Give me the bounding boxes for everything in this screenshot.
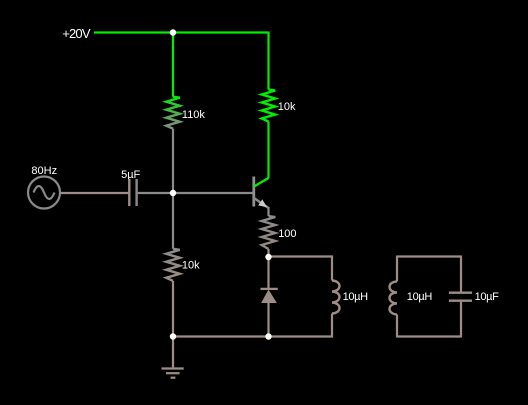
wire 110k top lead bbox=[172, 33, 174, 97]
wire cap to base bbox=[137, 192, 253, 194]
wire diode top lead bbox=[267, 257, 269, 289]
capacitor C1 left plate bbox=[128, 179, 130, 206]
node C dot ground rail bbox=[170, 333, 176, 339]
svg-text:110k: 110k bbox=[182, 109, 206, 121]
svg-text:80Hz: 80Hz bbox=[31, 165, 57, 177]
svg-text:10µH: 10µH bbox=[407, 291, 433, 303]
wire tank2 left top bbox=[396, 256, 398, 282]
wire collector branch down bbox=[267, 32, 269, 90]
wire tank2 right bottom bbox=[460, 301, 462, 338]
wire tank2 top rail bbox=[397, 255, 461, 257]
inductor L1 10uH coil bbox=[332, 281, 340, 314]
wire tank1 right top bbox=[331, 256, 333, 281]
wire top rail right bbox=[173, 31, 269, 33]
resistor R1 110k body bbox=[166, 97, 180, 129]
ground bar 2 bbox=[166, 372, 180, 374]
wire tank1 top rail bbox=[269, 255, 334, 257]
wire ground stem bbox=[172, 337, 174, 369]
ground bar 1 bbox=[162, 367, 184, 369]
svg-text:+20V: +20V bbox=[62, 26, 91, 41]
capacitor C2 top plate bbox=[449, 292, 472, 294]
capacitor C1 right plate bbox=[135, 179, 137, 206]
svg-text:10k: 10k bbox=[278, 101, 296, 113]
node B dot base bbox=[170, 190, 176, 196]
transistor Q1 emitter arrow bbox=[258, 199, 267, 207]
ac source V1 circle bbox=[28, 177, 60, 209]
svg-text:10µH: 10µH bbox=[343, 291, 369, 303]
ground bar 3 bbox=[171, 377, 176, 379]
wire diode bottom lead bbox=[267, 303, 269, 337]
ac source sine bbox=[34, 186, 55, 199]
wire 10k to collector bbox=[267, 122, 269, 179]
resistor R3 100 body bbox=[262, 216, 276, 249]
wire source to cap bbox=[61, 192, 130, 194]
wire tank1 bottom rail bbox=[269, 335, 334, 337]
transistor Q1 emitter lead bbox=[254, 198, 269, 208]
node E dot tank bottom bbox=[265, 333, 271, 339]
wire 110k bottom lead bbox=[172, 129, 174, 193]
transistor Q1 base bar bbox=[252, 177, 255, 207]
svg-text:10µF: 10µF bbox=[475, 291, 500, 303]
resistor R4 10k body bbox=[166, 249, 180, 281]
inductor L2 10uH coil bbox=[390, 281, 398, 314]
node A dot top rail bbox=[170, 29, 176, 35]
wire tank1 right bottom bbox=[331, 314, 333, 338]
svg-text:10k: 10k bbox=[182, 260, 200, 272]
svg-text:100: 100 bbox=[278, 228, 296, 240]
wire emitter down bbox=[267, 207, 269, 216]
transistor Q1 collector lead bbox=[254, 178, 269, 187]
wire 10k bias bottom lead bbox=[172, 281, 174, 337]
diode D1 triangle bbox=[261, 290, 277, 304]
wire tank2 left bottom bbox=[396, 314, 398, 337]
resistor R2 10k body bbox=[262, 90, 276, 122]
wire tank2 right top bbox=[460, 256, 462, 293]
diode D1 cathode bar bbox=[261, 288, 278, 290]
wire tank2 bottom rail bbox=[397, 335, 461, 337]
node D dot emitter tank bbox=[265, 254, 271, 260]
wire bias resistor top lead bbox=[172, 193, 174, 249]
wire bottom rail bbox=[173, 335, 269, 337]
wire top rail left bbox=[94, 31, 173, 33]
wire 100 to node E bbox=[267, 249, 269, 257]
capacitor C2 bottom plate bbox=[449, 300, 472, 302]
